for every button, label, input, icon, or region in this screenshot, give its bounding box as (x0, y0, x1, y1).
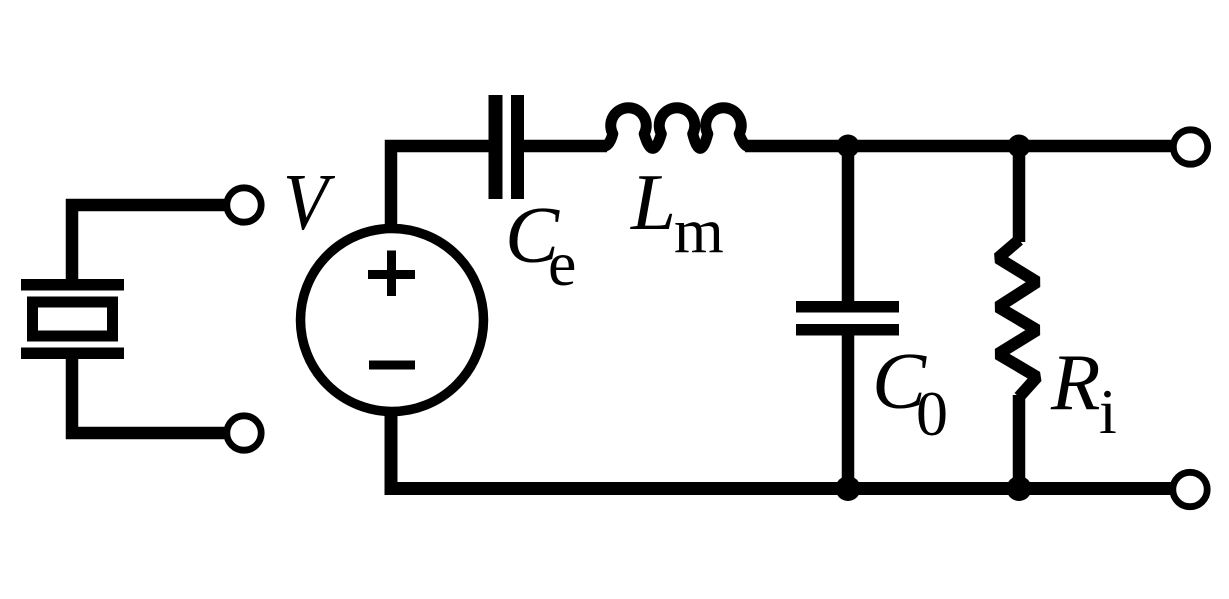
label Lm (630, 157, 724, 266)
wire Lm to terminal top-right (745, 140, 1171, 153)
capacitor C0 (796, 301, 899, 336)
terminal bottom-left (227, 416, 261, 450)
voltage source V1 (301, 229, 484, 412)
terminal bottom-right (1173, 472, 1207, 506)
wire node to C0 (842, 146, 855, 303)
wire Ce to Lm (524, 140, 607, 153)
node bottom C0 (836, 476, 861, 501)
svg-text:V: V (283, 157, 335, 247)
label Ri (1050, 337, 1117, 447)
wire crystal bottom to terminal (72, 356, 228, 433)
capacitor Ce (489, 95, 525, 199)
node top Ri (1008, 135, 1031, 158)
wire crystal top to terminal (72, 205, 228, 282)
wire node to Ri (1013, 146, 1026, 242)
inductor Lm (603, 108, 749, 149)
svg-text:m: m (674, 195, 724, 266)
resistor Ri (998, 240, 1037, 397)
wire C0 to bottom rail (842, 334, 855, 489)
terminal top-right (1173, 130, 1207, 164)
svg-text:L: L (630, 157, 676, 247)
svg-text:e: e (548, 228, 576, 299)
node bottom Ri (1007, 476, 1032, 501)
wire source bottom and bottom rail (391, 408, 1171, 489)
svg-text:R: R (1050, 337, 1100, 427)
label Ce (505, 190, 576, 299)
terminal top-left (227, 188, 261, 222)
node top C0 (837, 135, 860, 158)
label C0 (872, 336, 948, 449)
wire source top to rail and rail to Ce (391, 146, 489, 232)
wire Ri to bottom rail (1013, 395, 1026, 489)
crystal X1 (21, 279, 124, 359)
svg-text:0: 0 (916, 378, 948, 449)
svg-text:i: i (1099, 376, 1117, 447)
